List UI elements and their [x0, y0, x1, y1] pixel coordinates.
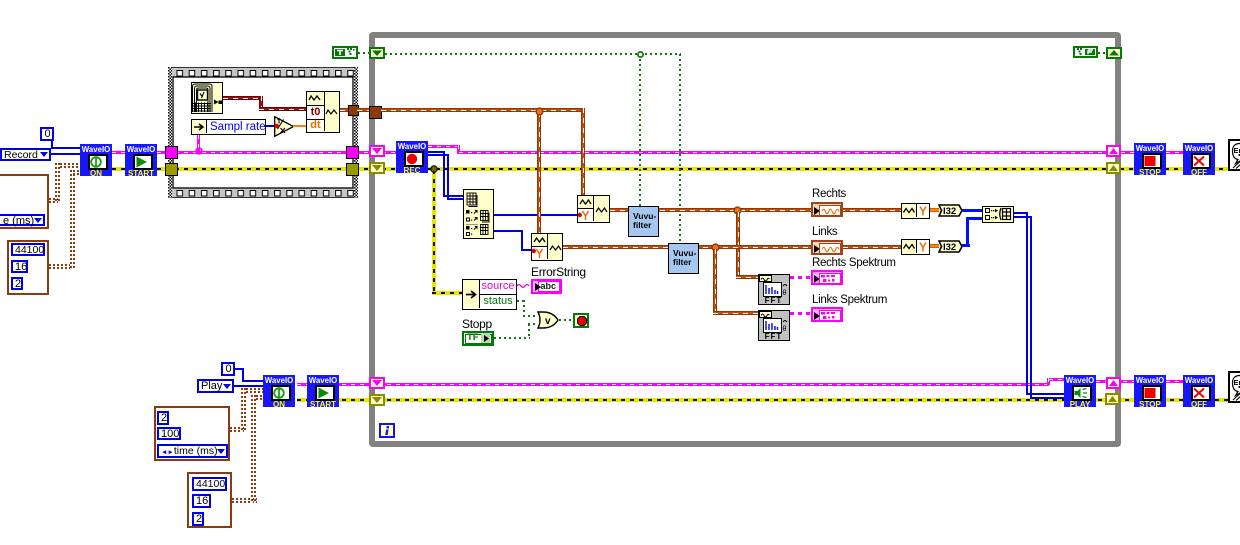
svg-text:v: v: [545, 316, 551, 327]
svg-text:Er: Er: [1234, 146, 1240, 155]
svg-text:I32: I32: [943, 242, 956, 253]
svg-text:Er: Er: [1234, 378, 1240, 387]
svg-text:I32: I32: [943, 206, 956, 217]
